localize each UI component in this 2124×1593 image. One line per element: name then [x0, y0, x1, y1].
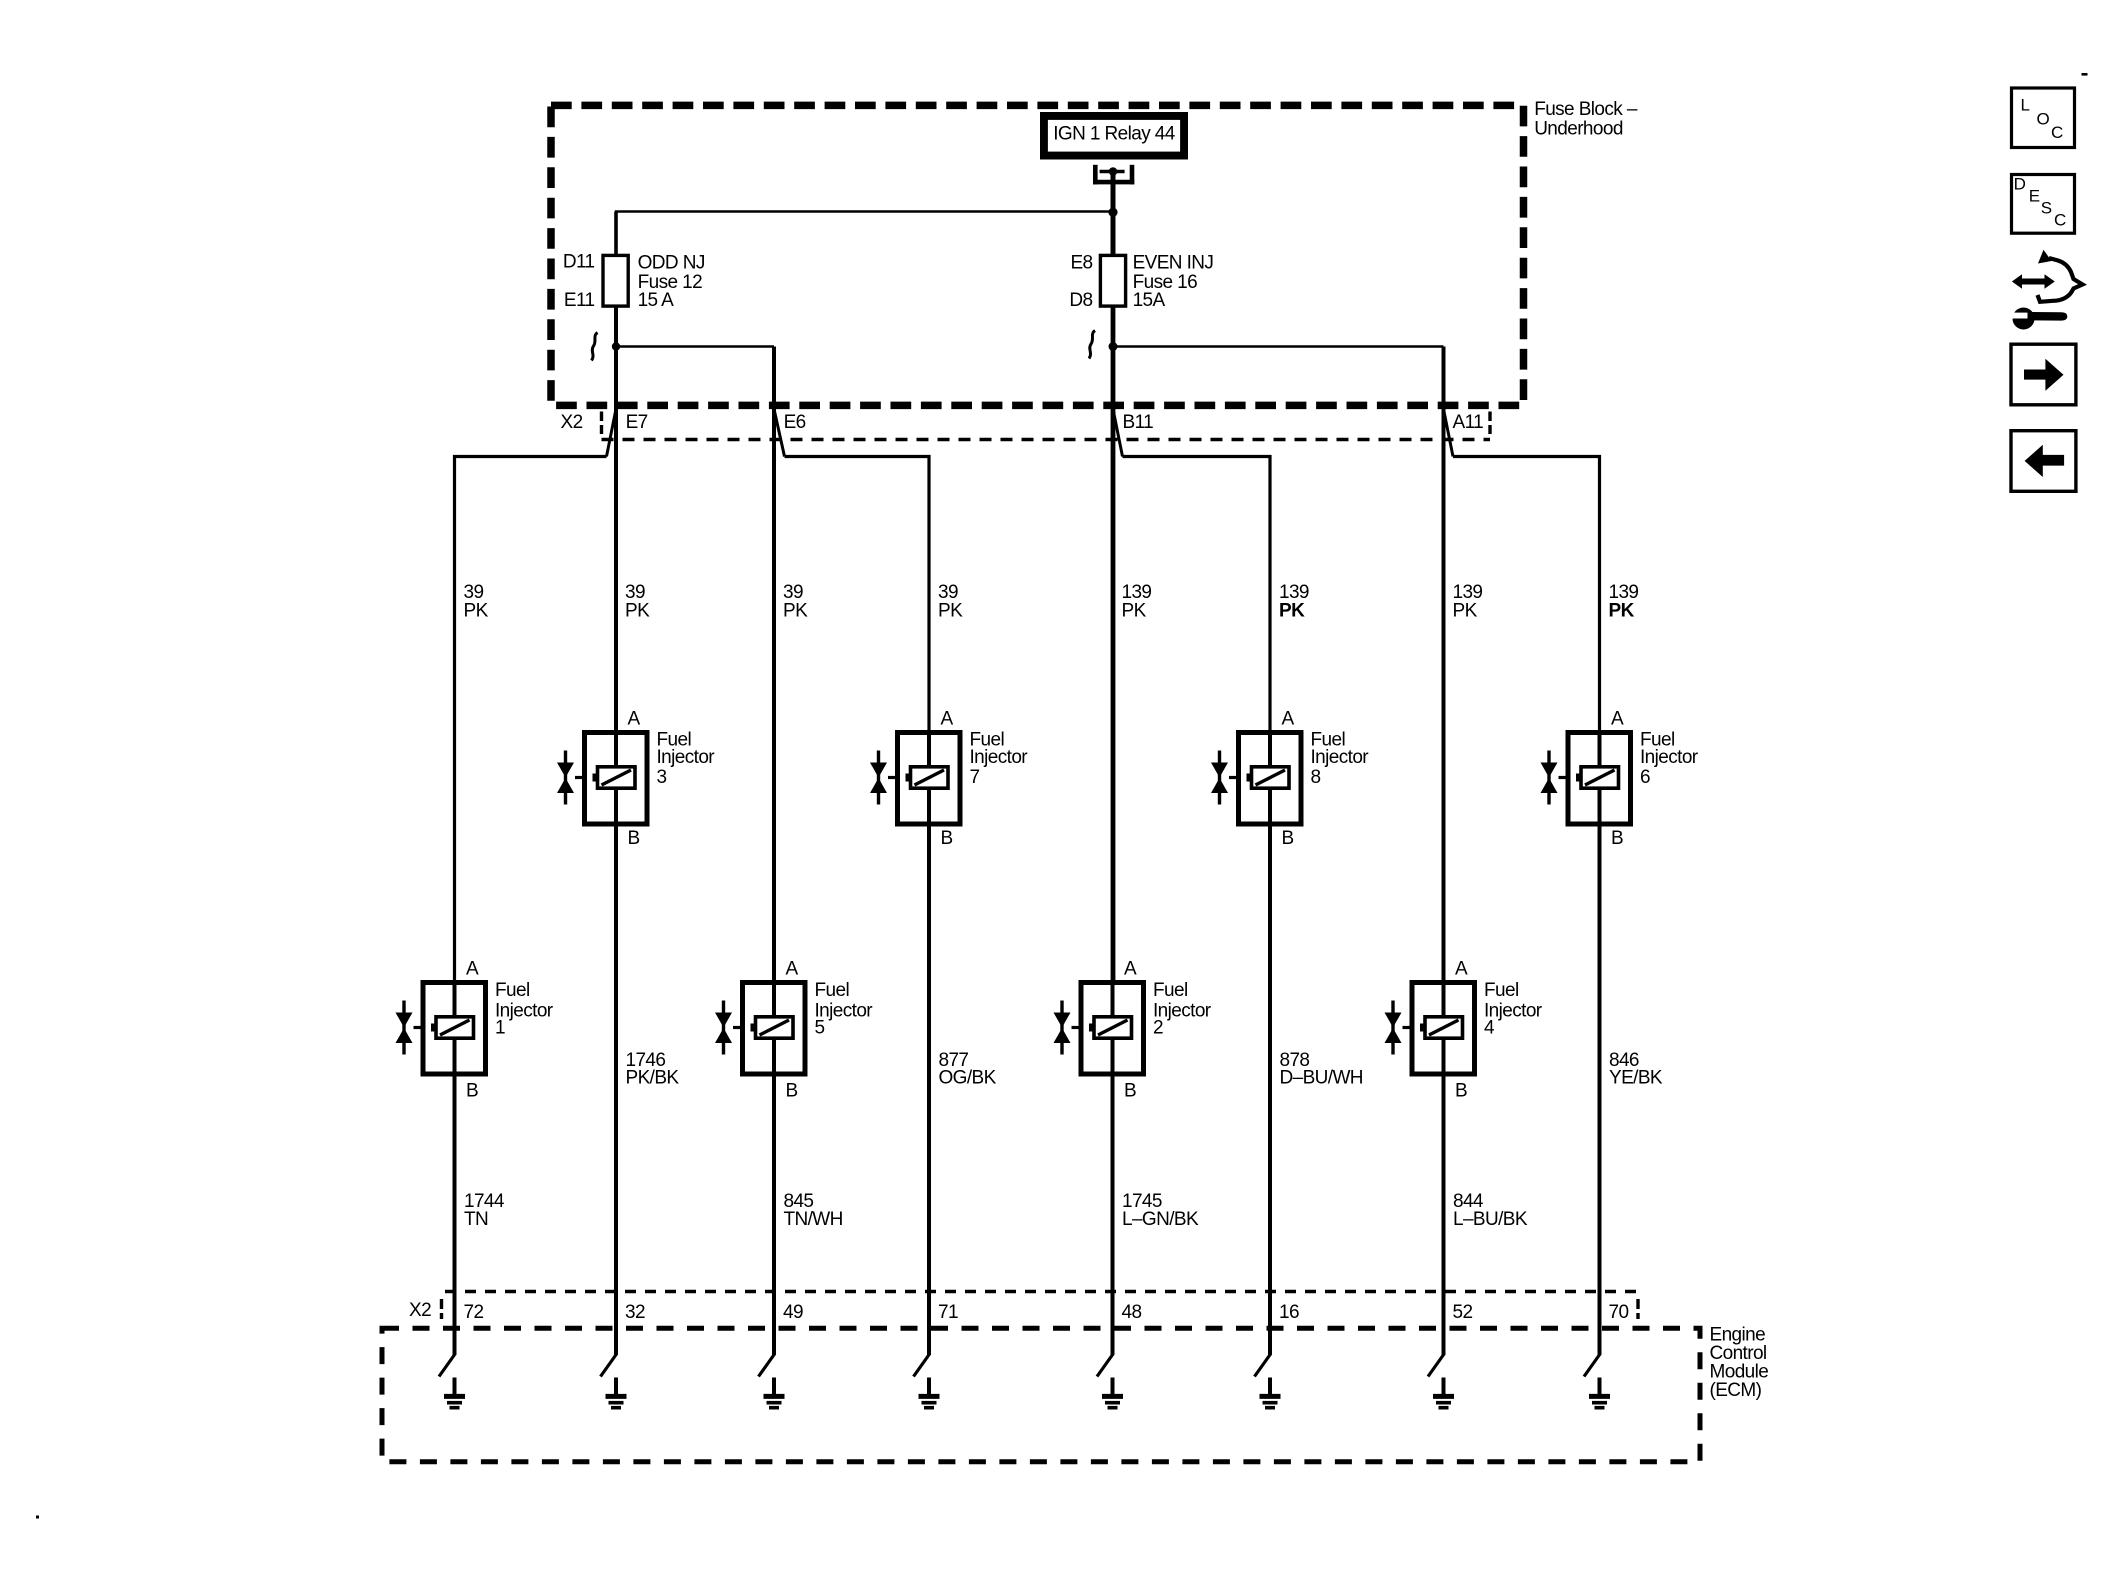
- svg-text:E6: E6: [784, 412, 806, 433]
- svg-text:A: A: [786, 958, 799, 979]
- svg-text:PK: PK: [938, 600, 963, 621]
- svg-text:B: B: [786, 1080, 798, 1101]
- wire label 845 TN/WH: [784, 1191, 843, 1230]
- svg-text:S: S: [2041, 199, 2052, 218]
- svg-text:Underhood: Underhood: [1534, 119, 1623, 140]
- svg-text:PK: PK: [625, 600, 650, 621]
- relay: IGN 1 Relay 44: [1040, 112, 1188, 160]
- stray mark top right: [2082, 73, 2088, 76]
- svg-text:B: B: [1124, 1080, 1136, 1101]
- svg-text:TN/WH: TN/WH: [784, 1209, 843, 1230]
- svg-text:52: 52: [1453, 1302, 1473, 1323]
- svg-text:D8: D8: [1069, 290, 1092, 311]
- pin E6: [774, 409, 806, 457]
- icon: next arrow button: [2011, 344, 2076, 405]
- svg-text:15A: 15A: [1133, 290, 1166, 311]
- ground: [606, 1378, 627, 1408]
- pin E7: [607, 409, 648, 457]
- svg-text:3: 3: [657, 767, 667, 788]
- ground: [764, 1378, 785, 1408]
- svg-text:Fuel: Fuel: [815, 980, 850, 1001]
- wire below injector 6 to ECM: [1598, 824, 1602, 1355]
- wire: relay terminal down to EVEN fuse: [1111, 172, 1116, 257]
- wire: drop to ODD fuse: [614, 212, 618, 257]
- wire below injector 8 to ECM: [1268, 824, 1272, 1355]
- wire: branch B11 to injector 8 column: [1123, 457, 1271, 735]
- harness squiggle at ODD splice: [592, 333, 598, 361]
- svg-text:Fuel: Fuel: [495, 980, 530, 1001]
- svg-text:PK: PK: [1122, 600, 1147, 621]
- wire label 1744 TN: [464, 1191, 505, 1230]
- icon: LOC button: [2012, 88, 2075, 148]
- svg-text:IGN 1 Relay 44: IGN 1 Relay 44: [1053, 124, 1176, 145]
- svg-text:Injector: Injector: [657, 747, 716, 768]
- wire below injector 7 to ECM: [927, 824, 931, 1355]
- wire label 1746 PK/BK: [626, 1050, 680, 1089]
- driver switch at pin 72: [439, 1354, 455, 1377]
- svg-text:B: B: [628, 828, 640, 849]
- svg-text:EVEN INJ: EVEN INJ: [1133, 253, 1214, 274]
- wire circuit label 139 PK column 7: [1453, 582, 1483, 621]
- fuel injector 2: [1054, 958, 1212, 1101]
- svg-text:PK: PK: [783, 600, 808, 621]
- wire circuit label 39 PK column 3: [783, 582, 808, 621]
- wire circuit label 39 PK column 2: [625, 582, 650, 621]
- connector X2 row (ECM): [409, 1292, 1639, 1322]
- fuel injector 1: [396, 958, 554, 1101]
- ground: [1433, 1378, 1454, 1408]
- svg-text:E7: E7: [626, 412, 648, 433]
- icon: schematic navigation (arrows and wrench): [2008, 250, 2083, 330]
- svg-text:E8: E8: [1070, 253, 1092, 274]
- pin B11: [1113, 409, 1153, 457]
- svg-text:PK: PK: [1453, 600, 1478, 621]
- svg-text:A: A: [628, 708, 641, 729]
- svg-text:Fuel: Fuel: [1153, 980, 1188, 1001]
- icon: DESC button: [2012, 175, 2075, 234]
- svg-text:A: A: [1455, 958, 1468, 979]
- driver switch at pin 52: [1428, 1354, 1444, 1377]
- ground: [1102, 1378, 1123, 1408]
- node: EVEN splice: [1109, 342, 1118, 351]
- fuse F16: EVEN INJ Fuse 16 15A: [1069, 253, 1213, 312]
- ground: [444, 1378, 465, 1408]
- wire circuit label 39 PK column 4: [938, 582, 963, 621]
- harness squiggle at EVEN splice: [1089, 331, 1095, 359]
- svg-text:5: 5: [815, 1018, 825, 1039]
- wire below injector 4 to ECM: [1442, 1074, 1446, 1355]
- svg-text:B: B: [466, 1080, 478, 1101]
- svg-text:16: 16: [1279, 1302, 1299, 1323]
- svg-text:L: L: [2021, 96, 2030, 115]
- svg-text:6: 6: [1640, 767, 1650, 788]
- svg-text:B: B: [941, 828, 953, 849]
- svg-text:Fuel: Fuel: [1484, 980, 1519, 1001]
- driver switch at pin 70: [1584, 1354, 1600, 1377]
- svg-text:A: A: [941, 708, 954, 729]
- pin A11: [1444, 409, 1484, 457]
- wire: EVEN fuse output down through connector B11 to Fuel Injector 2: [1111, 306, 1116, 984]
- relay output terminal bracket: [1093, 165, 1134, 185]
- stray mark bottom left: [36, 1516, 39, 1519]
- driver switch at pin 16: [1255, 1354, 1271, 1377]
- ECM box: Engine Control Module: [382, 1325, 1768, 1462]
- node: feed junction: [1108, 208, 1117, 217]
- svg-text:OG/BK: OG/BK: [939, 1068, 997, 1089]
- svg-text:C: C: [2051, 123, 2063, 142]
- wire circuit label 139 PK column 5: [1122, 582, 1152, 621]
- wire: horizontal feed to ODD fuse: [615, 210, 1113, 212]
- fuel injector 3: [557, 708, 715, 849]
- fuel injector 8: [1211, 708, 1369, 849]
- connector X2 row (underhood fuse block): [561, 412, 1491, 440]
- wire: EVEN splice branch to A11 drop: [1113, 345, 1444, 347]
- wire below injector 5 to ECM: [772, 1074, 776, 1355]
- wire circuit label 139 PK column 8: [1609, 582, 1639, 621]
- svg-text:L–BU/BK: L–BU/BK: [1453, 1209, 1528, 1230]
- svg-text:E: E: [2029, 187, 2040, 206]
- wire: branch E6 to injector 7 column: [785, 457, 930, 735]
- svg-text:A: A: [466, 958, 479, 979]
- svg-text:D: D: [2014, 175, 2026, 194]
- fuse block box: Fuse Block - Underhood: [551, 99, 1638, 406]
- svg-text:49: 49: [783, 1302, 803, 1323]
- svg-text:ODD NJ: ODD NJ: [638, 253, 705, 274]
- svg-text:1: 1: [495, 1018, 505, 1039]
- svg-text:D11: D11: [563, 252, 595, 273]
- svg-text:PK: PK: [1279, 600, 1305, 621]
- svg-text:PK: PK: [464, 600, 489, 621]
- ground: [1260, 1378, 1281, 1408]
- svg-text:PK/BK: PK/BK: [626, 1068, 680, 1089]
- wire below injector 1 to ECM: [453, 1074, 457, 1355]
- wire label 878 D–BU/WH: [1280, 1050, 1363, 1089]
- driver switch at pin 49: [759, 1354, 775, 1377]
- svg-text:B: B: [1455, 1080, 1467, 1101]
- svg-text:E11: E11: [564, 290, 595, 311]
- wire: ODD fuse output down through connector E7 to Fuel Injector 3: [614, 306, 618, 734]
- wire: branch A11 to injector 6 column: [1453, 457, 1600, 735]
- svg-text:72: 72: [464, 1302, 484, 1323]
- svg-text:(ECM): (ECM): [1710, 1380, 1762, 1401]
- wire: E6 drop to connector: [772, 347, 776, 984]
- wire label 844 L–BU/BK: [1453, 1191, 1528, 1230]
- svg-text:TN: TN: [464, 1209, 488, 1230]
- svg-text:Injector: Injector: [970, 747, 1029, 768]
- svg-text:A: A: [1611, 708, 1624, 729]
- svg-text:B: B: [1282, 828, 1294, 849]
- svg-text:A: A: [1124, 958, 1137, 979]
- junction dot at relay terminal: [1109, 167, 1118, 176]
- wire below injector 2 to ECM: [1111, 1074, 1115, 1355]
- wire circuit label 39 PK column 1: [464, 582, 489, 621]
- svg-text:71: 71: [938, 1302, 958, 1323]
- fuel injector 5: [715, 958, 873, 1101]
- svg-text:48: 48: [1122, 1302, 1142, 1323]
- svg-text:YE/BK: YE/BK: [1609, 1068, 1663, 1089]
- svg-text:2: 2: [1153, 1018, 1163, 1039]
- wire: ODD splice branch to E6 drop: [616, 345, 774, 347]
- wire: branch E7 to injector 1 column: [455, 457, 607, 986]
- svg-text:O: O: [2037, 110, 2050, 129]
- node: ODD splice: [612, 342, 620, 350]
- svg-text:L–GN/BK: L–GN/BK: [1122, 1209, 1199, 1230]
- svg-text:PK: PK: [1609, 600, 1635, 621]
- svg-text:4: 4: [1484, 1018, 1495, 1039]
- svg-text:B: B: [1611, 828, 1623, 849]
- svg-text:D–BU/WH: D–BU/WH: [1280, 1068, 1363, 1089]
- icon: back arrow button: [2011, 431, 2076, 492]
- driver switch at pin 48: [1097, 1354, 1113, 1377]
- svg-text:X2: X2: [561, 412, 583, 433]
- driver switch at pin 71: [914, 1354, 930, 1377]
- svg-text:C: C: [2054, 211, 2066, 230]
- driver switch at pin 32: [601, 1354, 617, 1377]
- svg-text:A: A: [1282, 708, 1295, 729]
- ground: [919, 1378, 940, 1408]
- svg-text:Fuse Block –: Fuse Block –: [1534, 99, 1638, 120]
- wire circuit label 139 PK column 6: [1279, 582, 1309, 621]
- wire: A11 drop to connector: [1442, 347, 1446, 984]
- wire below injector 3 to ECM: [614, 824, 618, 1355]
- fuel injector 6: [1541, 708, 1699, 849]
- svg-text:Injector: Injector: [1311, 747, 1370, 768]
- wire label 877 OG/BK: [939, 1050, 997, 1089]
- svg-text:32: 32: [625, 1302, 645, 1323]
- svg-text:Injector: Injector: [1640, 747, 1699, 768]
- fuel injector 4: [1385, 958, 1543, 1101]
- svg-text:15 A: 15 A: [638, 290, 675, 311]
- svg-text:B11: B11: [1123, 412, 1154, 433]
- svg-text:8: 8: [1311, 767, 1321, 788]
- svg-text:7: 7: [970, 767, 980, 788]
- ground: [1589, 1378, 1610, 1408]
- svg-text:A11: A11: [1453, 412, 1484, 433]
- svg-text:70: 70: [1609, 1302, 1629, 1323]
- fuse F12: ODD NJ Fuse 12 15 A: [563, 252, 705, 312]
- wire label 1745 L–GN/BK: [1122, 1191, 1199, 1230]
- wire label 846 YE/BK: [1609, 1050, 1663, 1089]
- svg-text:X2: X2: [409, 1300, 431, 1321]
- fuel injector 7: [870, 708, 1028, 849]
